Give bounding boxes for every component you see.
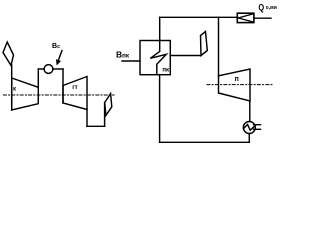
svg-text:о,ми: о,ми <box>266 5 277 11</box>
svg-text:гт: гт <box>72 85 77 91</box>
svg-text:Впк: Впк <box>116 49 130 59</box>
svg-text:Вс: Вс <box>52 43 60 50</box>
svg-text:пк: пк <box>162 67 169 73</box>
svg-text:к: к <box>13 86 16 92</box>
svg-text:Q: Q <box>258 2 264 13</box>
svg-text:п: п <box>235 76 239 83</box>
